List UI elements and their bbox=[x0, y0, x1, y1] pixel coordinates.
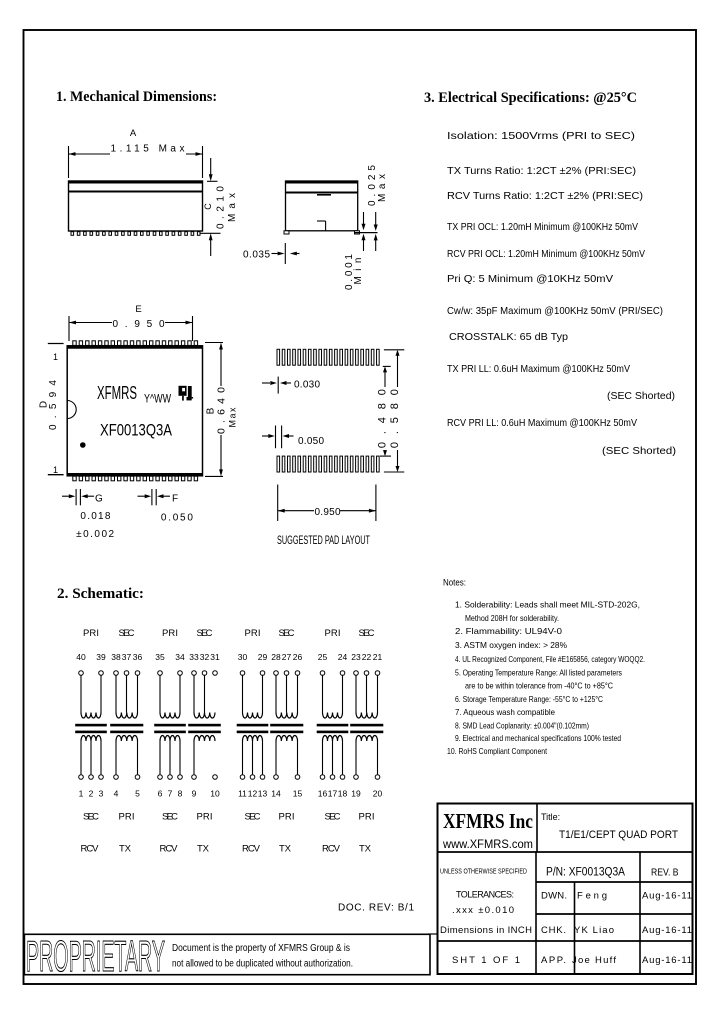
title block v-line mid bbox=[574, 882, 576, 974]
svg-text:22: 22 bbox=[362, 652, 372, 662]
svg-text:Title:: Title: bbox=[541, 812, 560, 822]
dimension B bbox=[205, 342, 223, 344]
svg-text:0.950: 0.950 bbox=[315, 507, 341, 518]
dimension A line bbox=[69, 153, 111, 155]
top view package body bbox=[67, 346, 202, 476]
svg-text:16: 16 bbox=[318, 789, 328, 799]
svg-text:31: 31 bbox=[210, 652, 220, 662]
svg-text:SHT 1 OF 1: SHT 1 OF 1 bbox=[452, 955, 520, 966]
front view pins row bbox=[71, 232, 74, 236]
svg-text:SEC: SEC bbox=[83, 812, 99, 823]
transformer T5 RCV port3 bbox=[237, 652, 269, 799]
svg-text:RCV: RCV bbox=[160, 844, 179, 855]
svg-text:RCV Turns Ratio: 1:2CT ±2% (PR: RCV Turns Ratio: 1:2CT ±2% (PRI:SEC) bbox=[447, 190, 643, 202]
svg-text:are to be within tolerance fro: are to be within tolerance from -40°C to… bbox=[465, 681, 613, 691]
svg-text:0.950: 0.950 bbox=[113, 319, 165, 330]
title block v-line right bbox=[639, 852, 641, 974]
svg-text:40: 40 bbox=[76, 652, 86, 662]
svg-text:5: 5 bbox=[135, 789, 140, 799]
svg-text:TOLERANCES:: TOLERANCES: bbox=[456, 890, 514, 900]
svg-text:28: 28 bbox=[271, 652, 281, 662]
svg-text:17: 17 bbox=[328, 789, 338, 799]
svg-text:APP.: APP. bbox=[541, 955, 566, 966]
svg-text:0.580: 0.580 bbox=[389, 389, 401, 448]
svg-text:18: 18 bbox=[338, 789, 348, 799]
transformer T6 TX port3 bbox=[270, 652, 303, 799]
svg-text:A: A bbox=[130, 128, 137, 139]
svg-text:DWN.: DWN. bbox=[541, 891, 567, 902]
svg-text:20: 20 bbox=[373, 789, 383, 799]
top view top pins bbox=[73, 341, 76, 346]
svg-text:32: 32 bbox=[200, 652, 210, 662]
svg-text:Max: Max bbox=[377, 174, 388, 202]
svg-text:RCV PRI OCL: 1.20mH Minimum @1: RCV PRI OCL: 1.20mH Minimum @100KHz 50mV bbox=[447, 248, 645, 260]
svg-text:E: E bbox=[135, 304, 141, 315]
svg-text:7: 7 bbox=[168, 789, 173, 799]
title block v-line left bbox=[535, 852, 537, 974]
UL logo bbox=[179, 386, 194, 401]
side view corner step bbox=[325, 221, 327, 231]
svg-text:26: 26 bbox=[293, 652, 303, 662]
dimension G bbox=[62, 495, 70, 497]
svg-text:27: 27 bbox=[282, 652, 292, 662]
dimension F bbox=[138, 495, 147, 497]
svg-text:33: 33 bbox=[189, 652, 199, 662]
title block h-line 3 bbox=[536, 913, 693, 915]
svg-text:PROPRIETARY: PROPRIETARY bbox=[26, 932, 165, 981]
svg-text:36: 36 bbox=[133, 652, 143, 662]
svg-text:PRI: PRI bbox=[83, 628, 99, 639]
svg-text:Aug-16-11: Aug-16-11 bbox=[642, 955, 692, 966]
dimension C arrow lines bbox=[210, 158, 212, 175]
svg-text:0.050: 0.050 bbox=[161, 513, 193, 524]
svg-text:Method 208H for solderability.: Method 208H for solderability. bbox=[465, 613, 559, 623]
svg-text:37: 37 bbox=[122, 652, 132, 662]
svg-text:TX Turns Ratio: 1:2CT ±2% (PRI: TX Turns Ratio: 1:2CT ±2% (PRI:SEC) bbox=[447, 165, 636, 177]
pad layout bottom row bbox=[277, 456, 280, 472]
svg-text:0.050: 0.050 bbox=[298, 436, 324, 447]
svg-text:SUGGESTED PAD LAYOUT: SUGGESTED PAD LAYOUT bbox=[277, 535, 370, 547]
title block h-line 1 bbox=[438, 851, 693, 853]
dimension 0.030 bbox=[262, 382, 270, 384]
svg-text:35: 35 bbox=[155, 652, 165, 662]
transformer T7 RCV port4 bbox=[317, 652, 349, 799]
svg-text:1. Solderability: Leads shall: 1. Solderability: Leads shall meet MIL-S… bbox=[455, 600, 640, 610]
title block h-line 2 bbox=[536, 881, 693, 883]
svg-text:34: 34 bbox=[175, 652, 185, 662]
top view side notch bbox=[67, 401, 76, 419]
transformer T1 RCV port1 bbox=[75, 652, 107, 799]
seating plane line bbox=[355, 232, 378, 234]
side view package body bbox=[286, 181, 358, 231]
svg-text:0.030: 0.030 bbox=[294, 380, 320, 391]
svg-text:Pri Q: 5 Minimum @10KHz 50mV: Pri Q: 5 Minimum @10KHz 50mV bbox=[447, 273, 613, 285]
svg-text:SEC: SEC bbox=[162, 812, 178, 823]
svg-text:Max: Max bbox=[228, 407, 238, 428]
dimension A extension lines bbox=[68, 146, 70, 178]
svg-text:T1/E1/CEPT QUAD PORT: T1/E1/CEPT QUAD PORT bbox=[559, 829, 678, 841]
svg-text:7. Aqueous wash compatible: 7. Aqueous wash compatible bbox=[455, 707, 555, 717]
svg-text:6: 6 bbox=[158, 789, 163, 799]
svg-text:8: 8 bbox=[178, 789, 183, 799]
svg-text:XF0013Q3A: XF0013Q3A bbox=[100, 421, 173, 440]
svg-text:2. Schematic:: 2. Schematic: bbox=[57, 586, 144, 602]
svg-text:CHK.: CHK. bbox=[541, 925, 566, 936]
svg-text:3. ASTM oxygen index: > 28%: 3. ASTM oxygen index: > 28% bbox=[455, 640, 568, 650]
pad layout top row bbox=[277, 349, 280, 365]
svg-text:10. RoHS Compliant Component: 10. RoHS Compliant Component bbox=[447, 746, 548, 756]
svg-text:29: 29 bbox=[258, 652, 268, 662]
svg-text:0.480: 0.480 bbox=[377, 389, 389, 448]
svg-text:XFMRS: XFMRS bbox=[97, 382, 137, 403]
svg-text:Isolation: 1500Vrms (PRI to SE: Isolation: 1500Vrms (PRI to SEC) bbox=[447, 130, 635, 142]
svg-text:10: 10 bbox=[210, 789, 220, 799]
transformer T2 TX port1 bbox=[110, 652, 143, 799]
svg-text:REV. B: REV. B bbox=[651, 867, 679, 879]
svg-text:1: 1 bbox=[53, 465, 58, 475]
svg-text:RCV: RCV bbox=[81, 844, 100, 855]
svg-text:6. Storage Temperature Range:: 6. Storage Temperature Range: -55°C to +… bbox=[455, 694, 603, 704]
svg-text:G: G bbox=[95, 494, 103, 505]
transformer T8 TX port4 bbox=[350, 652, 383, 799]
svg-text:TX PRI LL: 0.6uH Maximum @100K: TX PRI LL: 0.6uH Maximum @100KHz 50mV bbox=[447, 363, 630, 375]
side view body line bbox=[286, 192, 358, 194]
svg-text:PRI: PRI bbox=[197, 812, 213, 823]
transformer T3 RCV port2 bbox=[154, 652, 186, 799]
dimension 0.050 pads bbox=[262, 435, 269, 437]
svg-text:DOC. REV: B/1: DOC. REV: B/1 bbox=[338, 903, 414, 914]
svg-text:SEC: SEC bbox=[245, 812, 261, 823]
svg-text:0.035: 0.035 bbox=[243, 250, 270, 261]
top view upper edge thick bbox=[67, 346, 202, 349]
svg-text:www.XFMRS.com: www.XFMRS.com bbox=[442, 839, 533, 851]
svg-text:SEC: SEC bbox=[279, 628, 295, 639]
svg-text:3. Electrical Specifications:: 3. Electrical Specifications: @25°C bbox=[424, 90, 637, 106]
top view bottom pins bbox=[73, 476, 76, 481]
side view top edge thick bbox=[286, 181, 358, 184]
svg-text:TX: TX bbox=[197, 844, 210, 855]
title block outer box bbox=[438, 804, 693, 975]
svg-text:Dimensions in INCH: Dimensions in INCH bbox=[440, 925, 532, 936]
svg-text:PRI: PRI bbox=[279, 812, 295, 823]
svg-text:1: 1 bbox=[53, 352, 58, 362]
svg-text:0.594: 0.594 bbox=[48, 380, 59, 430]
fold mark left of title block bbox=[428, 933, 437, 935]
svg-text:19: 19 bbox=[351, 789, 361, 799]
svg-text:24: 24 bbox=[338, 652, 348, 662]
svg-text:PRI: PRI bbox=[119, 812, 135, 823]
svg-text:30: 30 bbox=[238, 652, 248, 662]
svg-text:1.115 Max: 1.115 Max bbox=[111, 144, 185, 155]
front view body line bbox=[69, 191, 203, 193]
svg-text:9. Electrical and mechanical s: 9. Electrical and mechanical specificati… bbox=[455, 733, 621, 743]
svg-text:RCV: RCV bbox=[322, 844, 341, 855]
svg-text:39: 39 bbox=[96, 652, 106, 662]
side view dash mark bbox=[317, 194, 331, 196]
svg-text:PRI: PRI bbox=[359, 812, 375, 823]
svg-text:(SEC Shorted): (SEC Shorted) bbox=[602, 445, 676, 457]
dimension 0.480 bbox=[383, 365, 391, 367]
svg-text:PRI: PRI bbox=[245, 628, 261, 639]
svg-text:Document is the property of XF: Document is the property of XFMRS Group … bbox=[172, 943, 350, 954]
svg-text:Aug-16-11: Aug-16-11 bbox=[642, 891, 692, 902]
svg-text:SEC: SEC bbox=[119, 628, 135, 639]
svg-text:CROSSTALK: 65 dB Typ: CROSSTALK: 65 dB Typ bbox=[449, 331, 568, 343]
svg-text:P/N: XF0013Q3A: P/N: XF0013Q3A bbox=[546, 867, 625, 879]
side view feet bbox=[284, 231, 289, 234]
transformer T4 TX port2 bbox=[188, 652, 221, 799]
top view lower edge thick bbox=[67, 473, 202, 476]
svg-text:Aug-16-11: Aug-16-11 bbox=[642, 925, 692, 936]
svg-text:5. Operating Temperature Range: 5. Operating Temperature Range: All list… bbox=[455, 668, 622, 678]
svg-text:Joe Huff: Joe Huff bbox=[572, 955, 616, 966]
svg-text:XFMRS Inc: XFMRS Inc bbox=[443, 809, 533, 833]
svg-text:8. SMD Lead Coplanarity: ±0.00: 8. SMD Lead Coplanarity: ±0.004"(0.102mm… bbox=[455, 721, 589, 731]
proprietary box bbox=[24, 934, 430, 974]
svg-text:YK Liao: YK Liao bbox=[574, 925, 614, 936]
svg-text:SEC: SEC bbox=[359, 628, 375, 639]
svg-text:TX PRI OCL: 1.20mH Minimum @10: TX PRI OCL: 1.20mH Minimum @100KHz 50mV bbox=[447, 221, 638, 233]
svg-text:1: 1 bbox=[79, 789, 84, 799]
svg-text:TX: TX bbox=[279, 844, 292, 855]
svg-text:Max: Max bbox=[227, 193, 238, 222]
svg-text:12: 12 bbox=[248, 789, 258, 799]
svg-text:21: 21 bbox=[373, 652, 383, 662]
svg-text:Cw/w: 35pF Maximum @100KHz 50m: Cw/w: 35pF Maximum @100KHz 50mV (PRI/SEC… bbox=[447, 305, 663, 317]
svg-text:Notes:: Notes: bbox=[443, 578, 466, 588]
svg-text:SEC: SEC bbox=[325, 812, 341, 823]
svg-text:F: F bbox=[172, 494, 178, 505]
svg-text:C: C bbox=[203, 203, 213, 210]
dimension 0.580 bbox=[384, 349, 404, 351]
svg-text:9: 9 bbox=[192, 789, 197, 799]
front view package body bbox=[69, 181, 203, 231]
dimension 0.025 Max arrows bbox=[375, 212, 377, 226]
svg-text:not allowed to be duplicated w: not allowed to be duplicated without aut… bbox=[172, 959, 353, 970]
svg-text:.xxx ±0.010: .xxx ±0.010 bbox=[452, 905, 514, 916]
svg-text:RCV: RCV bbox=[242, 844, 261, 855]
title block v-divider top row bbox=[536, 804, 538, 853]
dimension C extension ticks bbox=[207, 180, 218, 182]
dimension 0.001 Min arrows bbox=[363, 212, 365, 225]
svg-text:14: 14 bbox=[271, 789, 281, 799]
title block h-line 4 bbox=[438, 940, 693, 942]
svg-text:4. UL Recognized Component, Fi: 4. UL Recognized Component, File #E16585… bbox=[455, 654, 645, 664]
svg-text:23: 23 bbox=[351, 652, 361, 662]
front view top edge thick bbox=[69, 181, 203, 184]
svg-text:2. Flammability: UL94V-0: 2. Flammability: UL94V-0 bbox=[455, 626, 562, 636]
svg-text:15: 15 bbox=[293, 789, 303, 799]
svg-text:3: 3 bbox=[99, 789, 104, 799]
svg-text:PRI: PRI bbox=[162, 628, 178, 639]
svg-text:1. Mechanical Dimensions:: 1. Mechanical Dimensions: bbox=[56, 89, 217, 105]
svg-text:Y^WW: Y^WW bbox=[144, 392, 171, 406]
svg-text:13: 13 bbox=[258, 789, 268, 799]
svg-text:±0.002: ±0.002 bbox=[76, 529, 114, 540]
svg-text:4: 4 bbox=[114, 789, 119, 799]
dimension 0.950 pads bbox=[277, 485, 279, 522]
svg-text:SEC: SEC bbox=[197, 628, 213, 639]
svg-text:UNLESS OTHERWISE SPECIFIED: UNLESS OTHERWISE SPECIFIED bbox=[440, 867, 527, 876]
svg-text:RCV PRI LL: 0.6uH Maximum @100: RCV PRI LL: 0.6uH Maximum @100KHz 50mV bbox=[447, 417, 637, 429]
svg-text:0.210: 0.210 bbox=[216, 186, 227, 229]
svg-text:38: 38 bbox=[111, 652, 121, 662]
svg-text:PRI: PRI bbox=[325, 628, 341, 639]
svg-text:2: 2 bbox=[89, 789, 94, 799]
svg-text:Min: Min bbox=[353, 258, 364, 285]
svg-text:Feng: Feng bbox=[577, 891, 607, 902]
svg-text:0.640: 0.640 bbox=[216, 387, 228, 434]
svg-text:(SEC Shorted): (SEC Shorted) bbox=[607, 390, 675, 402]
svg-text:11: 11 bbox=[238, 789, 247, 799]
svg-text:TX: TX bbox=[359, 844, 372, 855]
svg-text:TX: TX bbox=[119, 844, 132, 855]
svg-text:0.018: 0.018 bbox=[80, 511, 110, 522]
pin 1 dot bbox=[80, 442, 86, 448]
svg-text:25: 25 bbox=[318, 652, 328, 662]
